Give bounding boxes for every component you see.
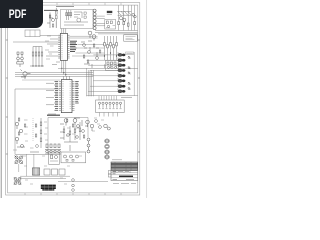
scattered parts mid band bbox=[81, 41, 101, 68]
left small cluster (AM coil) bbox=[17, 52, 24, 67]
transistor cluster Q5 bbox=[21, 70, 31, 80]
RCA jack J3 bbox=[118, 64, 125, 67]
jack top ticks bbox=[117, 52, 119, 90]
output glyph row4 bbox=[128, 72, 130, 75]
components inside tuner box bbox=[64, 10, 88, 25]
title block revision table bbox=[111, 162, 138, 171]
long bus line B bbox=[58, 67, 138, 69]
junction dots ladder bbox=[32, 65, 42, 66]
long bus line C bbox=[15, 72, 94, 74]
transistor Q7 bbox=[86, 120, 90, 127]
junction dots under U1 bbox=[61, 68, 66, 75]
vertical bus bundle bbox=[87, 68, 94, 96]
mute switch cluster bbox=[106, 61, 119, 71]
transistor pair Q3 Q4 bbox=[88, 31, 96, 40]
label under tuner text bbox=[48, 113, 56, 115]
output glyph row6 bbox=[128, 82, 130, 85]
title block footer text bbox=[113, 182, 136, 184]
tuner unit box bbox=[60, 10, 93, 29]
output section box wires bbox=[48, 118, 88, 155]
electrolytic cap C51 bbox=[105, 139, 109, 143]
ribbon cable bundle bbox=[118, 11, 132, 15]
page right scan edge bbox=[146, 0, 148, 198]
center mesh parts under U2 bbox=[60, 118, 88, 138]
electrolytic cap C52 bbox=[105, 145, 109, 149]
relay box row bbox=[44, 169, 65, 175]
manufacturer stamp bbox=[41, 185, 56, 191]
left lower diode D5 bbox=[21, 145, 24, 148]
wire to IC1 bbox=[40, 34, 58, 36]
net labels right of U2 bbox=[75, 81, 79, 103]
wires U1 to mid vertical wires bbox=[70, 36, 105, 56]
frame zone ticks bottom bbox=[25, 193, 121, 195]
dense cluster bottom of U2 bbox=[45, 144, 61, 154]
note circle 2 bbox=[72, 184, 75, 187]
svg-text:PDF: PDF bbox=[9, 7, 27, 21]
rail wire y80 bbox=[22, 79, 60, 81]
RCA jack J4 bbox=[118, 69, 125, 72]
IC U2 bbox=[59, 80, 75, 113]
comb wires to keyboard box bbox=[99, 96, 117, 100]
output glyph row7 bbox=[128, 87, 130, 90]
net label small right bbox=[121, 96, 132, 98]
wires under U1 bbox=[46, 29, 66, 77]
RCA jack J1 bbox=[118, 53, 125, 56]
cap column small left bbox=[87, 138, 90, 153]
ground rail bottom bbox=[15, 153, 60, 155]
note circle 1 bbox=[72, 179, 75, 182]
transistor Q10 bbox=[107, 127, 110, 130]
input stage parts below badge bbox=[47, 13, 56, 29]
label IC U2 bbox=[47, 114, 60, 116]
bridge rectifier D1-D4 bbox=[15, 156, 24, 165]
value labels left of U1 bbox=[45, 36, 54, 59]
mid components under U2 bbox=[63, 122, 81, 142]
RCA jack J7 bbox=[118, 85, 125, 88]
RF shield box bbox=[124, 35, 138, 41]
RCA jack J8 bbox=[118, 90, 125, 93]
tuner edge connector circles bbox=[93, 9, 96, 30]
drawing frame inner border bbox=[8, 5, 138, 193]
IC U1 bbox=[58, 34, 69, 61]
top-right vertical wires bbox=[119, 5, 135, 30]
right content vertical line bbox=[133, 52, 135, 96]
value labels lower left bbox=[13, 118, 104, 184]
keyboard connector box bbox=[96, 100, 125, 113]
keyboard switches bbox=[98, 102, 121, 104]
left lower transistor Q15 bbox=[15, 137, 18, 144]
resistor chain mid-left bbox=[36, 118, 42, 148]
long bus line E bbox=[15, 75, 94, 77]
wires bottom mid bbox=[20, 176, 108, 181]
keyboard pins bbox=[99, 104, 122, 109]
title block header text bbox=[112, 159, 122, 161]
resistor bank mid-right bbox=[104, 43, 118, 48]
filter box 2 bbox=[61, 152, 86, 163]
RCA jack J6 bbox=[118, 79, 125, 82]
regulator box 1 bbox=[49, 152, 60, 164]
dashed adjust line bbox=[32, 118, 34, 142]
long bus line D bbox=[15, 74, 94, 76]
note circle 3 bbox=[72, 189, 75, 192]
title block lower rows bbox=[111, 171, 138, 181]
electrolytic cap C54 bbox=[105, 155, 109, 159]
left lower transistor Q13 bbox=[15, 122, 18, 129]
junction dots mid-right bbox=[104, 52, 117, 56]
net labels left of U2 bbox=[55, 81, 59, 110]
frame zone ticks top bbox=[25, 3, 121, 6]
transistor Q9 bbox=[104, 124, 108, 128]
enclosure rail left bbox=[15, 89, 60, 154]
revision mini boxes bbox=[108, 171, 111, 178]
frame zone ticks left bbox=[6, 40, 8, 154]
net labels right of U1 bbox=[70, 41, 77, 51]
mid-right vertical wires with resistors bbox=[105, 36, 117, 68]
output glyph row3 bbox=[128, 66, 130, 69]
PDF badge bbox=[0, 0, 43, 28]
electrolytic cap C53 bbox=[105, 150, 109, 154]
frame zone ticks right bbox=[138, 40, 140, 152]
left lower transistor Q14 bbox=[19, 129, 22, 132]
antenna input parts left of tuner bbox=[55, 8, 57, 28]
title text top bbox=[56, 6, 74, 8]
RCA jack J2 bbox=[118, 59, 125, 62]
crystal label X1 bbox=[107, 11, 113, 15]
page left scan edge bbox=[0, 0, 2, 198]
keyboard box lower wires bbox=[100, 113, 118, 117]
resistors on top-right wires bbox=[118, 22, 136, 27]
transistor pair Q101 bbox=[119, 14, 136, 22]
jack label box bbox=[126, 52, 134, 54]
AC input wires bbox=[19, 154, 34, 176]
wire row A bbox=[13, 41, 58, 43]
IF module box bbox=[105, 19, 116, 29]
RCA jack J5 bbox=[118, 74, 125, 77]
subtitle text row bbox=[44, 9, 58, 11]
resistor ladder left bbox=[30, 47, 44, 67]
transistor Q12 bbox=[73, 119, 77, 126]
connector feed wires bbox=[87, 55, 118, 91]
transformer T1 bbox=[32, 168, 39, 175]
top bus lines bbox=[95, 31, 138, 34]
bridge rectifier D6-D9 bbox=[14, 177, 22, 185]
bottom bus to title area bbox=[87, 95, 138, 97]
IF coil box left bbox=[25, 30, 40, 37]
output glyph row1 bbox=[128, 56, 130, 59]
transistor Q8 bbox=[90, 124, 94, 131]
drawing frame outer border bbox=[6, 3, 140, 195]
wires tuner to IF module bbox=[96, 16, 105, 26]
transistor Q11 bbox=[64, 119, 68, 126]
wires left of U2 bbox=[46, 76, 70, 105]
extra parts lower left bbox=[17, 118, 101, 152]
